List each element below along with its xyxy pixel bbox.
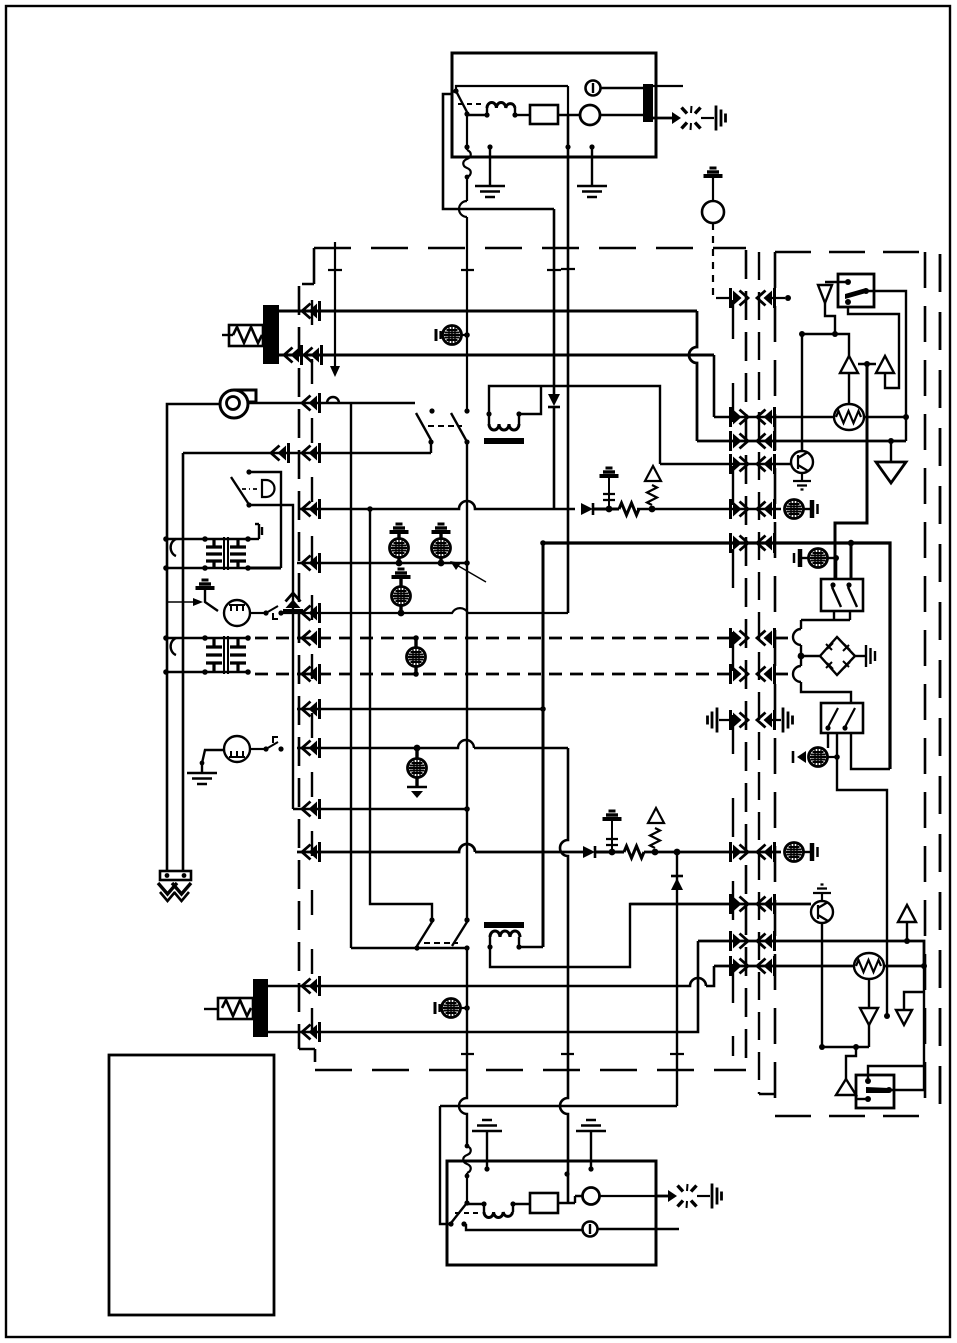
- wire coil lower right to x543: [519, 946, 543, 948]
- control board dashed enclosure top edge: [314, 247, 746, 250]
- wire fan left to vertical x167: [167, 404, 220, 872]
- wire row 417: [714, 416, 834, 419]
- diode D4 on x677: [671, 878, 683, 890]
- triangle connector up row 941: [904, 938, 910, 944]
- connector row 986 left: [302, 976, 320, 996]
- chassis ground row 720 right: [783, 708, 793, 733]
- wire terminator box bottom left: [160, 871, 191, 880]
- junction dots inside top box bottom: [464, 144, 469, 149]
- connector row 441 right pair: [731, 431, 749, 451]
- annotation arrow lamp row: [455, 564, 486, 582]
- big triangle connector down: [888, 438, 894, 444]
- chassis ground right of spark gap bottom: [712, 1184, 722, 1209]
- wire lamp2 stub bottom box: [598, 1228, 679, 1230]
- wire row 904: [630, 903, 811, 905]
- pilot device small circle with bar bottom box: [583, 1222, 598, 1237]
- power entry box bottom: [447, 1161, 656, 1265]
- wire between triangles: [858, 363, 876, 365]
- indicator lamp row 1008: [435, 999, 470, 1018]
- outer dashed boundary right: [939, 254, 942, 1120]
- junction dot x567 bottom: [564, 1171, 569, 1176]
- wire x467 lower run: [459, 948, 467, 1146]
- relay RY1 pins and armature: [845, 279, 851, 285]
- connector row 417 right pair: [731, 407, 749, 427]
- wire x568 lower from row 748: [560, 748, 568, 1203]
- transistor Q1: [791, 440, 813, 490]
- earth ground left below top box: [475, 186, 505, 197]
- magnetron filament coil upper: [484, 411, 524, 444]
- wire coil lower loop to row 904: [490, 904, 811, 967]
- pilot device big circle bottom box: [583, 1188, 600, 1205]
- wire coil upper loop to right column: [489, 386, 660, 464]
- connector arrows up on x293: [283, 593, 303, 611]
- wire x467 center vertical mid: [466, 442, 468, 920]
- wire row 509 to motor: [637, 508, 781, 511]
- wire hop x467 over y209: [459, 201, 467, 411]
- connector row 720 pair: [731, 710, 749, 730]
- connector row 674 left: [302, 664, 320, 684]
- wire left feeder from top box: [443, 94, 554, 209]
- wire row 356 heater bottom feed: [279, 354, 714, 357]
- wire vertical drop x554: [553, 209, 556, 394]
- connector row 613 left: [302, 603, 320, 623]
- wire left bracket bottom box: [440, 1106, 449, 1224]
- connector row 464 right pair: [731, 454, 749, 474]
- wire row 453: [183, 453, 431, 872]
- connector row 313 left: [302, 301, 320, 321]
- oven lamp L2: [432, 524, 451, 566]
- bridge rectifier BR1: [801, 637, 875, 675]
- bottom-left legend box: [109, 1055, 274, 1315]
- relay unit dashed enclosure: [775, 252, 925, 1116]
- tick on dashed corner x733: [732, 1036, 734, 1056]
- connector row 852 left: [302, 842, 320, 862]
- hood motor M3 row 558: [794, 543, 851, 580]
- connector strip dashed column right a: [732, 300, 734, 1020]
- connector row 453 left pair a: [271, 443, 289, 463]
- wire row 1106: [440, 1105, 677, 1107]
- earth ground stem left above bottom box: [486, 1132, 488, 1169]
- wire vertical with humps to bridge: [793, 629, 851, 703]
- wire spark to ground bottom: [697, 1195, 710, 1197]
- spark gap symbol bottom: [678, 1184, 697, 1208]
- transistor Q2: [811, 885, 833, 1046]
- wire RY1 pin3 loop to triangle b: [848, 307, 899, 388]
- capacitor to ground row 509: [600, 468, 619, 512]
- triangle connector down d: [896, 1010, 912, 1025]
- wire buzzer pivot to vertical x293: [249, 505, 293, 809]
- turntable motor M1: [196, 580, 284, 626]
- connector row 941 right pair: [731, 931, 749, 951]
- buzzer BZ lamp: [407, 635, 426, 677]
- wire x867 node to switchbox: [835, 364, 867, 579]
- earth ground stem right above bottom box: [590, 1132, 592, 1169]
- capacitor to ground row 852: [603, 811, 622, 855]
- diode D3 row 852: [583, 846, 595, 858]
- diode D1 on x554: [548, 394, 560, 406]
- fuse F1 top box: [515, 114, 530, 116]
- wire SB2 to M4 and long drop: [828, 733, 887, 1016]
- earth ground stem left below top box: [489, 147, 491, 185]
- thermistor TH1: [834, 404, 864, 430]
- wire row 563: [297, 562, 467, 564]
- aux circle sensor top middle: [702, 168, 724, 223]
- tick marks on verticals at board top edge: [328, 269, 575, 270]
- oven switch SW-A upper: [416, 408, 435, 453]
- wire row 1032: [268, 941, 698, 1032]
- dashed drop from aux circle: [713, 223, 719, 298]
- wire top box upper rail: [456, 86, 568, 115]
- wire row 441: [697, 440, 906, 443]
- heater resistor box top: [229, 325, 263, 346]
- arrow to spark gap top: [653, 117, 672, 120]
- low voltage transformer T1: [163, 536, 251, 571]
- interlock switch S2 bottom box: [448, 1200, 478, 1226]
- thermistor TH2: [854, 953, 884, 979]
- control board dashed enclosure left edge: [298, 286, 301, 1049]
- small motor row 509: [785, 500, 818, 519]
- chassis ground at T1 secondary top: [248, 524, 262, 539]
- wire switch lower contact to pilot lamp2: [466, 1224, 582, 1230]
- wire x802 relay node to Q1: [801, 334, 803, 451]
- dashed wire row 638: [255, 637, 732, 640]
- control board dashed enclosure right edge: [745, 250, 748, 1062]
- heater element top black bar: [263, 305, 279, 364]
- dot junction x467 row948: [464, 917, 469, 922]
- connector row 809 left: [302, 799, 320, 819]
- wire row 986: [268, 966, 714, 986]
- oven switch SW-C lower: [414, 917, 434, 950]
- power entry box top: [452, 53, 656, 157]
- connector row 904 right pair: [731, 894, 749, 914]
- connector strip dashed column right b: [759, 252, 775, 1094]
- wire row 709: [297, 708, 543, 710]
- wire triangle a to thermistor TH1: [848, 373, 850, 404]
- connector row 966 right pair: [731, 956, 749, 976]
- resistor R3 row 852: [595, 846, 644, 858]
- dashed link lower switches: [424, 942, 458, 944]
- chassis ground row 720 left: [708, 708, 718, 733]
- wire lamps to terminal bar: [600, 88, 643, 115]
- connector row 748 left: [302, 738, 320, 758]
- oven lamp L3: [392, 569, 411, 616]
- control board dashed enclosure top-left jog: [302, 248, 314, 284]
- dashed wire row 674: [255, 673, 732, 676]
- wire row 509 varistor line: [300, 501, 575, 509]
- triangle connector up a: [840, 356, 858, 373]
- choke coil L1 top box: [467, 103, 518, 118]
- wire spark to ground top: [701, 117, 714, 119]
- connector row 543 right pair: [731, 533, 749, 553]
- connector row 356 left pair b: [304, 345, 322, 365]
- earth ground right above bottom box: [576, 1120, 606, 1131]
- thermal cutout curl on x467 below box: [463, 116, 471, 201]
- magnetron motor row 852: [785, 843, 818, 862]
- wire row 852 magnetron line: [297, 844, 583, 852]
- wire row 966: [714, 965, 855, 968]
- tick marks on verticals at board bottom edge: [461, 1053, 684, 1055]
- wire buzzer top contact to transformer rail: [249, 472, 281, 568]
- earth ground stem right below top box: [591, 147, 593, 185]
- wire row 543: [543, 543, 890, 769]
- dashed link upper switches: [428, 425, 462, 427]
- indicator lamp row 335: [436, 326, 470, 345]
- relay RY2 box: [856, 1075, 894, 1108]
- power transformer T2: [163, 635, 251, 675]
- wire T1 secondary bottom thick: [248, 567, 281, 570]
- arrow to spark gap bottom: [600, 1195, 655, 1197]
- wire vertical x568 from box: [567, 115, 570, 613]
- oven lamp L4: [407, 745, 427, 798]
- wire to relay RY2 coil: [846, 1047, 856, 1079]
- chassis ground right of spark gap top: [716, 106, 726, 131]
- fuse F2 bottom box: [513, 1203, 530, 1205]
- heater resistor box bottom: [218, 998, 253, 1019]
- vertical link row356 to row441: [713, 355, 716, 417]
- wire row 720 ground stubs: [719, 719, 781, 721]
- connector row 709 left: [302, 699, 320, 719]
- oven lamp L1: [390, 524, 409, 566]
- connector row 356 left pair a: [284, 345, 302, 365]
- annotation arrow down into board: [334, 242, 336, 368]
- connector row 1032 left: [302, 1022, 320, 1042]
- wire row 852 to magnetron: [644, 851, 781, 854]
- earth ground right below top box: [577, 186, 607, 197]
- relay RY1 box: [838, 274, 874, 307]
- connector pair row 298: [731, 288, 749, 308]
- thermal curl on x467 above bottom switch: [463, 1146, 471, 1203]
- connector strip dashed column left inner: [311, 300, 313, 1040]
- wire vertical x677: [676, 852, 678, 1106]
- wire row 613: [281, 608, 568, 613]
- wire fan right row 403: [248, 402, 415, 404]
- connector row 674 right pair: [731, 664, 749, 684]
- connector row 852 right pair: [731, 842, 749, 862]
- interlock switch S1 top box: [452, 88, 482, 116]
- thermistor vertical R2 row 509: [645, 466, 661, 512]
- connector row 509 left: [302, 499, 320, 519]
- connector row 638 right pair: [731, 628, 749, 648]
- magnetron filament coil lower: [484, 922, 524, 950]
- wire SB1 bottom to rectifier feed: [801, 611, 850, 629]
- vertical link row313 to row417: [689, 311, 697, 441]
- door motor M4 row 757: [793, 748, 840, 767]
- relay RY2 coil triangle: [836, 1079, 856, 1095]
- wire vertical x543: [542, 543, 545, 947]
- wire RY1 to node network: [825, 303, 835, 334]
- switch box SB2: [821, 703, 863, 733]
- choke coil L2 bottom box: [467, 1201, 516, 1217]
- relay RY1 coil triangle: [818, 282, 848, 303]
- wire vertical x370: [370, 509, 432, 920]
- connector row 638 left: [302, 628, 320, 648]
- buzzer switch left: [231, 469, 275, 507]
- wire RY1 pin2 to row 417: [866, 291, 906, 441]
- wire riser x924: [923, 966, 925, 1090]
- control board dashed enclosure bottom-left jog: [299, 1049, 315, 1062]
- wire vertical x351 from row403: [351, 403, 468, 948]
- earth ground left above bottom box: [472, 1120, 502, 1131]
- connector row 403 left: [302, 393, 320, 413]
- double arrows to supply: [158, 883, 191, 894]
- wire RY2 top pin feed: [868, 1066, 924, 1081]
- triangle connector up b: [876, 356, 894, 373]
- heater element bottom black bar: [253, 979, 268, 1037]
- wire hump row 403: [327, 397, 339, 403]
- terminal bar black top box: [643, 84, 653, 122]
- wire row 464: [660, 463, 791, 465]
- triangle connector down c: [860, 1008, 878, 1025]
- oven switch SW-D lower: [452, 917, 470, 950]
- wire fuse2 to lamps: [558, 1196, 583, 1203]
- wire SB2 right leg: [851, 733, 890, 769]
- switch box SB1: [821, 579, 863, 611]
- connector row 509 right pair: [731, 499, 749, 519]
- oven switch SW-B upper: [451, 408, 470, 444]
- relay RY2 pins and armature: [865, 1078, 871, 1084]
- wire row 748: [297, 740, 568, 748]
- thermistor vertical R4 row 852: [648, 808, 664, 855]
- pilot device small circle with bar top box: [586, 81, 601, 96]
- fan motor B1: [220, 390, 256, 418]
- wire row 941: [698, 941, 924, 966]
- connector row 453 left pair b: [302, 443, 320, 463]
- control board dashed enclosure bottom edge: [315, 1069, 746, 1072]
- stub wire from terminal bar upper: [653, 85, 683, 87]
- spark gap symbol top: [682, 106, 701, 130]
- wire TH2 down: [868, 979, 870, 1008]
- pilot device big circle top box: [580, 105, 600, 125]
- resistor R1 row 509: [593, 503, 639, 515]
- wire row 809: [293, 808, 467, 810]
- annotation arrow at M1: [168, 601, 193, 603]
- connector row 563 left: [302, 553, 320, 573]
- diode D2 row 509: [581, 503, 593, 515]
- wire node row 1047: [822, 1025, 869, 1047]
- wire row 313 heater top feed: [279, 310, 697, 313]
- wire fuse to lamps: [558, 114, 580, 116]
- stirrer motor M2: [187, 736, 284, 784]
- wire RY2 pin2 to riser: [889, 1089, 924, 1091]
- wire node row 334: [802, 334, 849, 356]
